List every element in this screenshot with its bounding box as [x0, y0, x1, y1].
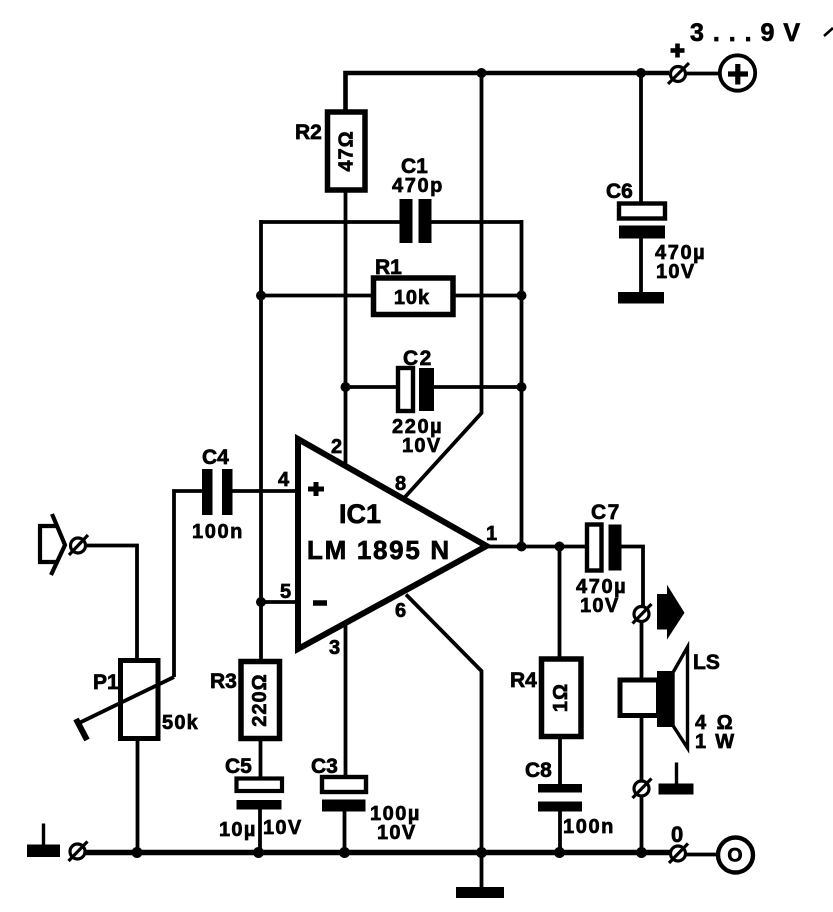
svg-text:5: 5 — [280, 581, 291, 603]
wire connector to battery — [686, 72, 719, 76]
capacitor C1 — [400, 199, 432, 243]
node junction rail pin6 — [476, 847, 487, 858]
wire top supply rail — [346, 73, 670, 114]
wire R1 row — [261, 294, 374, 298]
svg-text:2: 2 — [331, 436, 342, 458]
svg-text:10V: 10V — [656, 261, 696, 283]
svg-text:10k: 10k — [394, 287, 430, 309]
svg-text:IC1: IC1 — [339, 499, 381, 529]
svg-text:10V: 10V — [263, 817, 303, 839]
input arrow symbol — [40, 514, 65, 575]
svg-text:C8: C8 — [525, 759, 552, 782]
svg-text:P1: P1 — [93, 671, 119, 694]
node junction rail C8 — [554, 847, 565, 858]
node junction pin5 — [256, 597, 266, 607]
wire C6 branch — [639, 73, 643, 204]
svg-text:C4: C4 — [202, 446, 229, 469]
svg-text:C6: C6 — [606, 180, 633, 203]
svg-text:LM 1895 N: LM 1895 N — [307, 535, 451, 565]
node junction R1 row left — [256, 291, 266, 301]
capacitor C7 — [587, 525, 622, 571]
connector plug speaker top — [633, 604, 652, 624]
capacitor C4 — [202, 469, 233, 515]
wire C2 row — [346, 385, 399, 389]
svg-text:100n: 100n — [563, 816, 615, 838]
wire bottom rail — [86, 850, 670, 856]
svg-text:R3: R3 — [210, 670, 237, 693]
wire connector to speaker — [640, 622, 644, 681]
wire pin8 from supply — [405, 73, 482, 497]
node junction rail P1 — [132, 847, 143, 858]
wire C4 left to wiper — [174, 491, 202, 677]
node junction rail C5 — [253, 847, 264, 858]
resistor R1 — [374, 278, 454, 315]
wire C5 to rail — [258, 809, 262, 852]
minus input mark — [313, 600, 327, 606]
svg-text:1Ω: 1Ω — [550, 683, 572, 712]
wire left feedback rail — [259, 220, 263, 602]
capacitor C2 — [398, 368, 434, 411]
svg-text:C5: C5 — [225, 755, 252, 778]
connector plug speaker bottom — [633, 779, 652, 799]
svg-text:3: 3 — [329, 637, 340, 659]
svg-text:50k: 50k — [162, 712, 199, 734]
wire P1 to rail — [136, 739, 140, 853]
wire R2 to pin2 — [344, 190, 348, 467]
wire pin5 row — [261, 600, 298, 604]
wire C8 to rail — [558, 812, 562, 854]
node junction rail C3 — [339, 847, 350, 858]
svg-text:47Ω: 47Ω — [336, 130, 358, 171]
wire R3 to C5 — [259, 739, 263, 779]
wire input to P1 — [86, 546, 137, 661]
potentiometer P1 — [76, 661, 174, 741]
scan mark — [824, 28, 833, 36]
connector plug V+ — [668, 63, 689, 84]
wire C1 row left — [261, 220, 400, 224]
node junction output R4 — [555, 542, 565, 552]
op-amp IC1 — [298, 439, 487, 649]
resistor R2 — [328, 112, 366, 190]
wire speaker to connector — [640, 716, 644, 782]
ground speaker — [659, 763, 694, 795]
node junction top rail C6 — [636, 68, 646, 78]
wire C3 to rail — [343, 812, 347, 853]
svg-text:R1: R1 — [375, 256, 402, 279]
node junction output right rail — [517, 542, 527, 552]
capacitor C3 — [322, 777, 366, 812]
svg-text:1: 1 — [486, 523, 497, 545]
svg-text:10µ: 10µ — [219, 819, 257, 841]
wire output row — [487, 545, 589, 549]
svg-text:470p: 470p — [392, 175, 444, 197]
wire connector to terminal 0 — [686, 853, 718, 857]
svg-text:10V: 10V — [377, 822, 417, 844]
svg-text:4: 4 — [278, 469, 290, 491]
ground bar under C6 — [618, 292, 664, 304]
battery terminal 0 — [718, 838, 753, 873]
svg-text:C3: C3 — [311, 755, 338, 778]
wire C1 row right — [432, 220, 522, 224]
capacitor C5 — [237, 779, 283, 810]
plus polarity mark — [671, 44, 685, 58]
connector plug ground — [69, 842, 88, 862]
node junction top rail pin8 — [477, 68, 487, 78]
svg-text:0: 0 — [671, 822, 683, 847]
svg-text:C2: C2 — [403, 347, 433, 370]
svg-text:100n: 100n — [192, 521, 244, 543]
wire R4 branch — [558, 547, 562, 660]
node junction rail speaker — [636, 847, 647, 858]
output arrow — [657, 585, 685, 640]
resistor R3 — [241, 602, 280, 739]
wire connector to rail — [640, 796, 644, 853]
svg-text:O: O — [727, 845, 742, 867]
svg-text:1 W: 1 W — [695, 731, 736, 753]
node junction pin2 line C2 row — [341, 382, 351, 392]
svg-text:10V: 10V — [402, 435, 442, 457]
wire pin6 to rail — [406, 595, 482, 853]
svg-text:C7: C7 — [591, 501, 621, 524]
svg-text:6: 6 — [395, 600, 406, 622]
svg-text:3 . . . 9 V: 3 . . . 9 V — [690, 19, 801, 47]
capacitor C6 — [619, 204, 665, 293]
node junction C2 row right — [517, 382, 527, 392]
wire pin3 to C3 — [344, 622, 348, 777]
connector plug 0V — [669, 844, 688, 864]
plus input mark — [308, 482, 324, 496]
resistor R4 — [542, 659, 582, 737]
wire right feedback rail — [520, 220, 524, 546]
svg-text:R2: R2 — [295, 121, 322, 144]
svg-text:10V: 10V — [580, 595, 620, 617]
svg-text:LS: LS — [693, 651, 720, 674]
svg-text:220Ω: 220Ω — [249, 673, 271, 726]
wire R4 to C8 — [558, 737, 562, 785]
connector plug input — [69, 535, 88, 555]
svg-text:R4: R4 — [510, 669, 537, 692]
node junction R1 row right — [517, 291, 527, 301]
battery terminal B+ — [720, 55, 755, 90]
capacitor C8 — [538, 784, 582, 812]
wire C7 to speaker branch — [622, 547, 644, 607]
ground input — [27, 824, 60, 858]
speaker LS — [620, 647, 688, 748]
ground center — [456, 852, 504, 898]
wire pin4 row — [233, 489, 299, 493]
